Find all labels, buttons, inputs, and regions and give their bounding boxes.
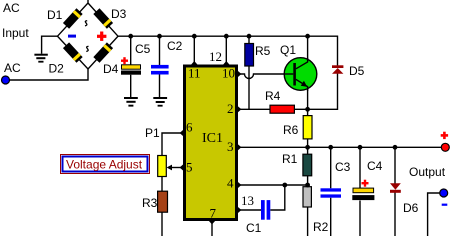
svg-text:10: 10 <box>222 66 235 81</box>
svg-text:5: 5 <box>186 160 193 175</box>
svg-text:3: 3 <box>227 139 234 154</box>
svg-text:D3: D3 <box>111 7 127 21</box>
svg-text:Q1: Q1 <box>280 43 296 57</box>
svg-text:P1: P1 <box>145 126 160 140</box>
svg-text:AC: AC <box>4 61 21 75</box>
svg-text:R2: R2 <box>313 220 329 234</box>
svg-text:13: 13 <box>241 193 254 208</box>
svg-text:R4: R4 <box>265 89 281 103</box>
svg-text:Output: Output <box>409 165 446 179</box>
svg-text:D6: D6 <box>403 201 419 215</box>
svg-text:R6: R6 <box>283 123 299 137</box>
svg-text:R3: R3 <box>142 196 158 210</box>
svg-text:C5: C5 <box>135 42 151 56</box>
svg-text:D2: D2 <box>49 62 65 76</box>
svg-text:12: 12 <box>209 49 222 64</box>
svg-text:Voltage Adjust: Voltage Adjust <box>66 158 143 172</box>
svg-text:D5: D5 <box>349 64 365 78</box>
svg-text:C1: C1 <box>246 221 262 235</box>
svg-text:Input: Input <box>2 26 29 40</box>
svg-text:4: 4 <box>227 176 234 191</box>
svg-text:R5: R5 <box>255 44 271 58</box>
svg-text:IC1: IC1 <box>202 131 223 146</box>
svg-text:AC: AC <box>3 1 20 15</box>
svg-text:C2: C2 <box>167 39 183 53</box>
svg-text:D1: D1 <box>47 8 63 22</box>
svg-text:7: 7 <box>210 206 217 221</box>
svg-text:C3: C3 <box>335 160 351 174</box>
svg-text:R1: R1 <box>282 152 298 166</box>
svg-text:2: 2 <box>227 101 234 116</box>
svg-text:D4: D4 <box>103 62 119 76</box>
svg-text:6: 6 <box>186 120 193 135</box>
svg-text:11: 11 <box>188 66 201 81</box>
svg-text:C4: C4 <box>367 159 383 173</box>
